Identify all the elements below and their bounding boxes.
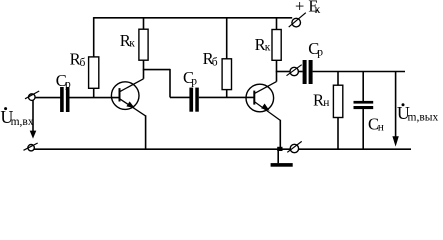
- capacitor Cp3: [303, 60, 307, 84]
- wire elbow to Cp2: [170, 96, 190, 98]
- svg-text:к: к: [129, 38, 135, 50]
- wire Cp2 to T2 base: [199, 96, 254, 98]
- resistor Rk1: [139, 29, 148, 60]
- label U m,vx with dot: [0, 107, 33, 128]
- wire Rk1 bottom to collector junction: [143, 60, 145, 79]
- wire output rail: [313, 71, 405, 73]
- svg-text:р: р: [65, 79, 71, 91]
- resistor Rk2: [272, 30, 281, 61]
- wire T1 emitter down: [145, 115, 147, 149]
- node input terminal bottom: [28, 145, 34, 151]
- svg-text:р: р: [317, 47, 323, 59]
- wire drop to Rn: [337, 72, 339, 86]
- svg-text:m,вх: m,вх: [11, 116, 34, 128]
- transistor VT2: [246, 82, 280, 121]
- wire elbow down: [169, 69, 171, 98]
- label Rb1: [70, 50, 86, 70]
- wire T2 emitter down: [279, 120, 281, 149]
- resistor Rn: [333, 85, 342, 117]
- label Rk2: [255, 35, 271, 54]
- transistor VT1: [111, 79, 145, 116]
- node +Ek terminal: [292, 18, 301, 27]
- svg-text:б: б: [212, 57, 218, 69]
- wire bottom rail right: [299, 148, 411, 150]
- svg-text:р: р: [191, 76, 197, 88]
- svg-text:б: б: [80, 57, 86, 69]
- svg-text:к: к: [265, 42, 271, 54]
- label +Ek: [295, 0, 321, 16]
- label U m,vyx with dot: [397, 103, 439, 123]
- label Cp3: [308, 39, 323, 59]
- capacitor Cp1: [60, 87, 64, 112]
- svg-text:н: н: [378, 122, 384, 134]
- label Cn: [368, 114, 384, 133]
- wire drop rail to Rb1: [93, 17, 95, 57]
- wire Cp1 to T1 base: [70, 97, 120, 99]
- capacitor Cp2: [189, 88, 193, 112]
- capacitor Cn: [354, 101, 374, 104]
- wire drop rail to Rb2: [226, 18, 228, 60]
- wire drop rail to Rk2: [276, 18, 278, 30]
- label Cp1: [56, 71, 71, 91]
- svg-text:к: к: [315, 4, 321, 16]
- wire collector branch to elbow: [143, 69, 170, 71]
- node output coupling terminal: [290, 67, 298, 75]
- svg-text:m,вых: m,вых: [408, 112, 439, 124]
- wire bottom rail left: [34, 148, 291, 150]
- arrow U output: [395, 72, 397, 139]
- wire Rk2 bottom to collector junction: [276, 60, 278, 81]
- wire drop to Cn: [362, 72, 364, 102]
- wire top supply rail: [94, 17, 293, 19]
- node input terminal top: [29, 94, 36, 101]
- label Cp2: [183, 68, 197, 88]
- label Rk1: [120, 31, 136, 50]
- label Rn: [313, 91, 329, 110]
- wire Rb2 bottom stub: [226, 90, 228, 98]
- arrow U input: [32, 100, 34, 132]
- label Rb2: [203, 49, 218, 69]
- node bottom terminal: [290, 144, 298, 152]
- wire Rn bottom: [337, 118, 339, 150]
- wire input to Cp1: [35, 97, 60, 99]
- wire Cn bottom: [362, 109, 364, 149]
- wire Rb1 bottom stub: [93, 88, 95, 97]
- wire drop rail to Rk1: [143, 18, 145, 30]
- ground: [277, 150, 279, 163]
- wire output branch to terminal: [276, 71, 290, 73]
- wire terminal to Cp3: [298, 71, 302, 73]
- resistor Rb1: [89, 57, 99, 88]
- node junction dot emitter2/ground: [277, 147, 282, 151]
- svg-text:н: н: [323, 97, 329, 109]
- resistor Rb2: [222, 59, 231, 90]
